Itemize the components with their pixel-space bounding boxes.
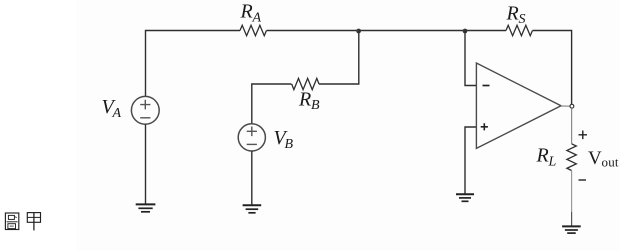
wire: V_A to ground bbox=[145, 124, 147, 204]
wire: R_L to ground bbox=[571, 171, 573, 213]
wire: output node down to R_L bbox=[571, 108, 573, 144]
svg-text:A: A bbox=[252, 11, 262, 26]
op-amp U1 bbox=[476, 63, 561, 148]
wire: R_B to V_B bbox=[252, 84, 292, 124]
wire: node A to node B bbox=[359, 30, 465, 32]
wire: node B to R_S bbox=[465, 30, 506, 32]
V_A minus bbox=[140, 117, 150, 119]
resistor R_B bbox=[292, 78, 319, 89]
svg-text:V: V bbox=[588, 148, 602, 169]
op-amp plus sign bbox=[481, 123, 488, 130]
resistor R_S bbox=[506, 25, 532, 35]
resistor R_A bbox=[240, 25, 266, 35]
caption 甲 (A) bbox=[27, 213, 40, 231]
label V_B bbox=[274, 127, 294, 152]
svg-text:B: B bbox=[285, 137, 294, 152]
svg-text:L: L bbox=[548, 155, 557, 170]
voltage source V_A bbox=[131, 96, 159, 124]
resistor R_L bbox=[567, 144, 576, 171]
node A junction dot bbox=[356, 29, 361, 34]
ground (V_B) bbox=[243, 205, 262, 213]
V_A plus bbox=[140, 100, 150, 110]
wire: V_B to ground bbox=[251, 151, 253, 205]
V_out plus marker bbox=[579, 131, 588, 140]
V_B plus bbox=[247, 127, 257, 137]
svg-text:out: out bbox=[602, 155, 619, 170]
label V_out bbox=[588, 148, 619, 170]
wire: top rail V_A to R_A bbox=[146, 31, 241, 97]
op-amp minus sign bbox=[483, 85, 490, 87]
svg-text:B: B bbox=[311, 98, 320, 113]
ground (op-amp + input) bbox=[456, 194, 474, 201]
label R_S bbox=[506, 2, 526, 27]
caption 圖 (figure) bbox=[5, 213, 18, 230]
svg-text:R: R bbox=[506, 2, 519, 24]
wire: R_A to node A bbox=[267, 30, 359, 32]
V_out minus marker bbox=[579, 179, 587, 181]
ground (R_L) bbox=[562, 226, 581, 233]
wire: R_S to right rail, down to output node bbox=[533, 31, 572, 105]
wire: node A down and left to R_B bbox=[319, 31, 359, 85]
node B junction dot bbox=[463, 29, 468, 34]
svg-text:R: R bbox=[536, 144, 549, 166]
label R_A bbox=[240, 1, 262, 26]
voltage source V_B bbox=[238, 124, 265, 151]
svg-text:R: R bbox=[298, 89, 311, 111]
svg-text:A: A bbox=[112, 106, 122, 121]
label R_L bbox=[536, 144, 557, 169]
svg-text:S: S bbox=[519, 12, 526, 27]
label V_A bbox=[102, 96, 122, 121]
wire: node B down to inverting input bbox=[465, 31, 477, 86]
svg-text:R: R bbox=[240, 1, 253, 23]
wire: non-inverting input left and down bbox=[465, 127, 477, 194]
label R_B bbox=[298, 89, 320, 114]
ground (V_A) bbox=[136, 204, 156, 211]
wire: op-amp output to node bbox=[561, 105, 570, 107]
output node (open dot) bbox=[570, 104, 574, 108]
V_B minus bbox=[247, 143, 257, 145]
